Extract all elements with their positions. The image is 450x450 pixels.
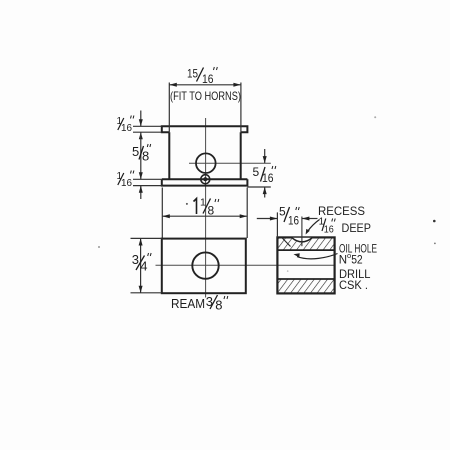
recess leader arrow <box>306 220 320 235</box>
horizontal centerline (plan view to section) <box>156 264 335 266</box>
svg-text:RECESS: RECESS <box>318 204 365 218</box>
svg-text:52: 52 <box>351 255 363 267</box>
svg-text:5: 5 <box>253 165 260 179</box>
dimension 1/16 bottom flange (left) <box>117 171 162 200</box>
svg-text:4: 4 <box>140 259 147 274</box>
svg-text:8: 8 <box>142 149 149 164</box>
dimension 5/16 (section) <box>257 205 318 238</box>
label REAM 3/8 <box>171 294 228 313</box>
svg-text:5: 5 <box>132 144 139 159</box>
label (FIT TO HORNS) <box>170 89 241 103</box>
svg-text:(FIT TO HORNS): (FIT TO HORNS) <box>170 89 241 103</box>
svg-text:3: 3 <box>132 252 139 267</box>
section view outline <box>277 237 334 293</box>
svg-text:CSK .: CSK . <box>339 280 368 292</box>
dimension 3/4 (left of plan view) <box>131 238 162 292</box>
horizontal centerline through bore (front view) <box>189 162 271 164</box>
bore circle (front view) <box>196 153 216 173</box>
svg-text:16: 16 <box>262 171 274 185</box>
dimension 15/16 (fit to horns) <box>169 67 241 133</box>
svg-text:15: 15 <box>187 67 198 81</box>
oil hole leader arrow <box>294 253 338 259</box>
svg-text:16: 16 <box>121 178 132 189</box>
bore circle (plan view) <box>192 252 218 278</box>
label RECESS 1/16 DEEP <box>318 204 371 236</box>
label OIL HOLE No52 DRILL CSK <box>339 244 377 293</box>
svg-text:16: 16 <box>288 214 299 228</box>
svg-text:N: N <box>339 255 347 267</box>
dimension 5/16 (right of front view) <box>247 149 275 198</box>
svg-text:8: 8 <box>208 204 215 218</box>
dimension 1/16 top flange (left) <box>117 111 162 140</box>
dimension 1 1/8 (between views) <box>162 188 247 239</box>
recess arc <box>292 238 312 242</box>
svg-text:DEEP: DEEP <box>342 221 372 235</box>
svg-text:REAM: REAM <box>171 296 205 311</box>
section centerline <box>301 217 303 247</box>
vertical centerline <box>205 118 207 298</box>
oil hole (front view) <box>201 175 210 184</box>
section bottom hatched band <box>277 279 334 293</box>
stray specks <box>98 116 436 272</box>
svg-text:16: 16 <box>202 72 214 86</box>
dimension 5/8 body height (left) <box>132 132 151 179</box>
section top hatched band (recess wall) <box>277 237 334 250</box>
svg-text:8: 8 <box>215 298 222 313</box>
plan view rectangle <box>162 239 246 294</box>
svg-text:16: 16 <box>121 123 132 134</box>
svg-text:16: 16 <box>324 225 334 236</box>
svg-text:5: 5 <box>279 205 286 219</box>
svg-text:1: 1 <box>200 197 206 209</box>
front view outline (spool shaped axlebox) <box>162 126 248 185</box>
